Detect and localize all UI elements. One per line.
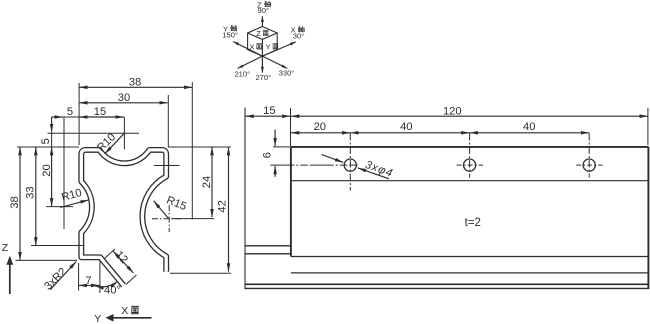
cube axis arrow 150 xyxy=(233,42,262,57)
svg-text:15: 15 xyxy=(94,106,106,118)
svg-text:150°: 150° xyxy=(222,31,238,40)
dimension 12 flange xyxy=(105,249,137,285)
svg-text:Z: Z xyxy=(256,29,261,38)
svg-text:5: 5 xyxy=(40,138,52,144)
right view inner horizontal edge y285 xyxy=(245,283,648,285)
right view inner horizontal edge y181 xyxy=(291,180,649,182)
3xR2 leader xyxy=(50,262,76,290)
cube axis arrow 330 xyxy=(262,56,287,68)
dimension 15 right view xyxy=(245,115,290,117)
svg-text:6: 6 xyxy=(261,152,273,158)
dimension 24 vertical right xyxy=(168,147,231,219)
dimension 120 xyxy=(291,108,648,146)
svg-text:38: 38 xyxy=(9,196,21,208)
right view outline xyxy=(245,147,648,289)
dimension 30 horizontal xyxy=(79,83,168,147)
3x phi4 leaders xyxy=(322,155,390,179)
dimension 40 b xyxy=(470,132,590,134)
dimension 20 xyxy=(291,132,350,134)
hole 1 centerlines xyxy=(270,133,357,191)
R10 top dip leader xyxy=(105,117,125,154)
cube axis arrow 210 xyxy=(238,56,263,68)
svg-text:3xR2: 3xR2 xyxy=(42,266,69,293)
dimension 5 horizontal xyxy=(46,117,73,229)
svg-text:330°: 330° xyxy=(279,69,295,78)
cube hexagon xyxy=(248,27,278,57)
dimension 7 bottom xyxy=(79,262,100,294)
svg-text:7: 7 xyxy=(85,275,91,287)
svg-text:30°: 30° xyxy=(293,32,304,41)
hole 2 xyxy=(464,159,476,171)
dimension 5 vertical left xyxy=(48,117,140,147)
right view inner horizontal edge y272 xyxy=(291,272,649,274)
cube axis arrow up 90 xyxy=(261,16,263,26)
hole 3 centerlines xyxy=(576,133,602,178)
svg-text:Y: Y xyxy=(94,313,101,324)
Y axis arrow xyxy=(106,314,152,322)
svg-text:33: 33 xyxy=(25,186,37,198)
svg-text:20: 20 xyxy=(314,121,326,133)
svg-text:X: X xyxy=(121,305,128,317)
dimension 38 horizontal xyxy=(79,82,192,220)
svg-text:Z: Z xyxy=(2,242,9,254)
svg-text:12: 12 xyxy=(113,249,130,266)
Z axis arrow xyxy=(6,256,13,294)
profile outline (left view cross-section sheet) xyxy=(81,150,166,286)
svg-text:40: 40 xyxy=(400,121,412,133)
svg-text:90°: 90° xyxy=(258,6,269,15)
svg-text:40: 40 xyxy=(523,121,535,133)
svg-text:15: 15 xyxy=(263,105,275,117)
svg-text:20: 20 xyxy=(41,164,53,176)
hole 2 centerlines xyxy=(457,133,483,178)
dimension 42 vertical right xyxy=(170,147,231,273)
svg-text:42: 42 xyxy=(217,200,229,212)
svg-text:R15: R15 xyxy=(165,194,189,213)
right view inner horizontal edge y256 xyxy=(291,256,649,258)
dimension 33 vertical left xyxy=(31,147,85,246)
dimension 15 horizontal xyxy=(79,116,124,118)
svg-text:120: 120 xyxy=(443,105,462,117)
cube axis arrow 30 xyxy=(262,42,295,56)
svg-text:3xφ4: 3xφ4 xyxy=(363,159,394,180)
svg-text:270°: 270° xyxy=(255,73,271,82)
svg-text:t=2: t=2 xyxy=(465,217,481,229)
svg-text:5: 5 xyxy=(67,106,73,118)
svg-text:210°: 210° xyxy=(234,70,250,79)
hole 1 xyxy=(344,159,356,171)
dimension 40 a xyxy=(350,132,469,134)
R15 scallop leader + center cross xyxy=(152,166,182,233)
svg-text:30: 30 xyxy=(118,92,130,104)
cube axis arrow 270 xyxy=(261,56,263,73)
dimension 6 xyxy=(273,130,291,177)
dimension 20 vertical left xyxy=(51,147,53,207)
svg-text:40°: 40° xyxy=(104,285,121,297)
hole 3 xyxy=(583,159,595,171)
flange strip step lines xyxy=(245,246,291,254)
dimension 38 vertical left xyxy=(16,147,80,260)
flange strip left edge xyxy=(244,108,246,290)
R10 left scallop leader xyxy=(60,200,89,208)
dimension 40 degree arc xyxy=(96,282,118,287)
svg-text:Y: Y xyxy=(266,42,271,51)
svg-text:24: 24 xyxy=(201,176,213,188)
svg-text:38: 38 xyxy=(129,77,141,89)
svg-text:X: X xyxy=(249,42,254,51)
